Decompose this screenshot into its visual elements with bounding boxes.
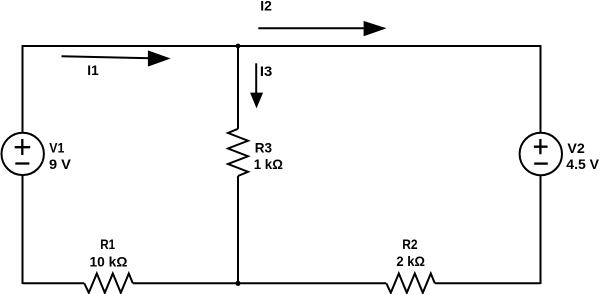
- node B junction dot: [235, 281, 240, 286]
- wire bottom left corner to R1: [23, 282, 85, 284]
- label I3: [260, 63, 273, 79]
- svg-text:2 kΩ: 2 kΩ: [396, 253, 425, 269]
- wire middle vertical lower (R3 to node B): [237, 176, 239, 283]
- wire right vertical lower (V2 bottom to bottom corner): [540, 176, 542, 284]
- svg-text:I2: I2: [260, 0, 272, 13]
- svg-text:10 kΩ: 10 kΩ: [90, 253, 128, 269]
- svg-text:4.5 V: 4.5 V: [566, 156, 599, 172]
- wire top from node A to right corner: [238, 45, 541, 47]
- svg-text:R1: R1: [100, 236, 115, 252]
- resistor R1: [84, 274, 133, 293]
- wire top from left corner to node A: [23, 45, 239, 47]
- svg-text:R3: R3: [255, 140, 272, 156]
- label V2 value: [566, 140, 599, 172]
- svg-text:V1: V1: [49, 140, 64, 156]
- svg-text:V2: V2: [567, 140, 585, 156]
- svg-text:R2: R2: [402, 236, 418, 252]
- current arrow I3: [250, 63, 263, 108]
- voltage source V2: [520, 133, 562, 175]
- svg-text:9 V: 9 V: [49, 156, 72, 172]
- svg-text:1 kΩ: 1 kΩ: [254, 156, 283, 172]
- current arrow I2: [258, 21, 386, 36]
- resistor R2: [386, 274, 435, 293]
- node A junction dot: [236, 44, 241, 49]
- wire middle vertical upper (node A to R3): [237, 46, 239, 129]
- label I1: [87, 62, 99, 78]
- wire bottom R1 to node B: [133, 282, 238, 284]
- wire bottom node B to R2: [238, 282, 386, 284]
- label R1 value: [90, 236, 128, 269]
- wire right vertical upper (corner to V2 top): [540, 45, 542, 133]
- current arrow I1: [62, 50, 171, 66]
- label V1 value: [49, 140, 72, 173]
- resistor R3: [228, 129, 248, 176]
- wire left vertical lower (V1 bottom to bottom corner): [22, 176, 24, 285]
- label R3 value: [254, 140, 283, 173]
- label R2 value: [396, 236, 425, 269]
- voltage source V1: [2, 133, 44, 175]
- label I2: [260, 0, 272, 13]
- wire left vertical upper (corner to V1 top): [22, 45, 24, 133]
- svg-text:I3: I3: [260, 63, 273, 79]
- wire bottom R2 to right corner: [435, 282, 541, 284]
- svg-text:I1: I1: [87, 62, 99, 78]
